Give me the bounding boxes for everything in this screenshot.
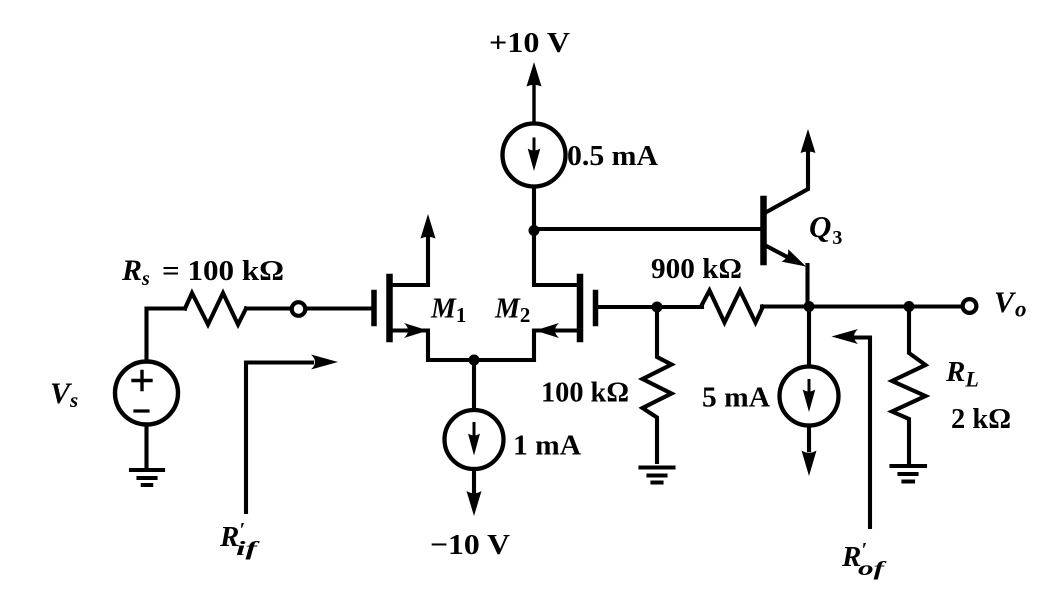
node tail junction (469, 355, 480, 366)
M1 source lead (392, 331, 474, 361)
node input open circle (292, 302, 306, 316)
terminal Vo (963, 299, 977, 313)
M1 source arrow (404, 323, 428, 338)
minus sign of Vs (135, 409, 148, 412)
ground of Vs (131, 425, 163, 486)
svg-text:Rs: Rs (121, 254, 150, 290)
M2 source arrow (535, 323, 559, 338)
wire input node to M1 gate (306, 306, 371, 310)
M2 drain lead (534, 232, 578, 285)
resistor 900 k (701, 291, 763, 323)
current source 5 mA (807, 307, 811, 367)
wire Rs to input node (246, 306, 291, 310)
current source 1 mA (445, 410, 504, 469)
M1 drain lead (392, 237, 428, 285)
resistor RL (892, 307, 926, 464)
wire 0.5 mA to node (532, 187, 536, 232)
node RL junction (904, 301, 915, 312)
transistor M2 channel bar (577, 277, 584, 339)
transistor M1 channel bar (386, 277, 393, 339)
Q3 emitter (767, 246, 792, 259)
svg-text:−10 V: −10 V (430, 529, 510, 561)
ground of RL (892, 466, 926, 482)
svg-text:= 100 kΩ: = 100 kΩ (162, 256, 284, 287)
Q3 collector (767, 152, 809, 212)
node drain M2 (529, 225, 540, 236)
svg-text:5 mA: 5 mA (702, 382, 770, 414)
voltage source Vs (115, 362, 178, 425)
transistor M2 gate bar (593, 293, 599, 324)
svg-text:M2: M2 (494, 294, 530, 328)
svg-text:RL: RL (945, 356, 979, 392)
transistor Q3 base bar (760, 199, 767, 262)
arrow 5mA to negative supply (807, 426, 811, 451)
svg-text:R′of: R′of (841, 539, 888, 580)
wire tail node to current source (472, 360, 476, 410)
arrow R'of (856, 338, 870, 528)
svg-text:0.5 mA: 0.5 mA (567, 141, 659, 172)
transistor M1 gate bar (371, 293, 377, 324)
resistor 100 k (643, 307, 672, 462)
wire M2 gate rail (598, 305, 702, 309)
svg-text:Vo: Vo (994, 286, 1027, 322)
ground of 100k (641, 468, 674, 483)
plus sign of Vs (133, 372, 151, 390)
current source 0.5 mA (503, 124, 566, 187)
wire node to Q3 base (534, 227, 760, 231)
svg-text:100 kΩ: 100 kΩ (541, 377, 629, 409)
node 100k junction (652, 302, 663, 313)
arrow M1 drain up (421, 214, 436, 239)
node emitter output (804, 301, 815, 312)
arrow +10V supply (532, 85, 535, 124)
svg-text:Vs: Vs (50, 377, 78, 412)
svg-text:2 kΩ: 2 kΩ (951, 403, 1011, 435)
wire 900k to output (762, 304, 962, 308)
svg-text:Q3: Q3 (809, 209, 842, 249)
M2 source lead (474, 331, 578, 361)
wire 1 mA source to -10V arrow (472, 469, 476, 492)
wire Vs top to resistor Rs (147, 309, 186, 362)
svg-text:M1: M1 (430, 294, 466, 328)
svg-text:900 kΩ: 900 kΩ (651, 253, 742, 285)
svg-text:+10 V: +10 V (489, 27, 570, 59)
svg-text:1 mA: 1 mA (513, 430, 581, 462)
svg-text:R′if: R′if (219, 519, 261, 560)
resistor Rs (185, 293, 246, 325)
arrow R'if (246, 363, 312, 513)
